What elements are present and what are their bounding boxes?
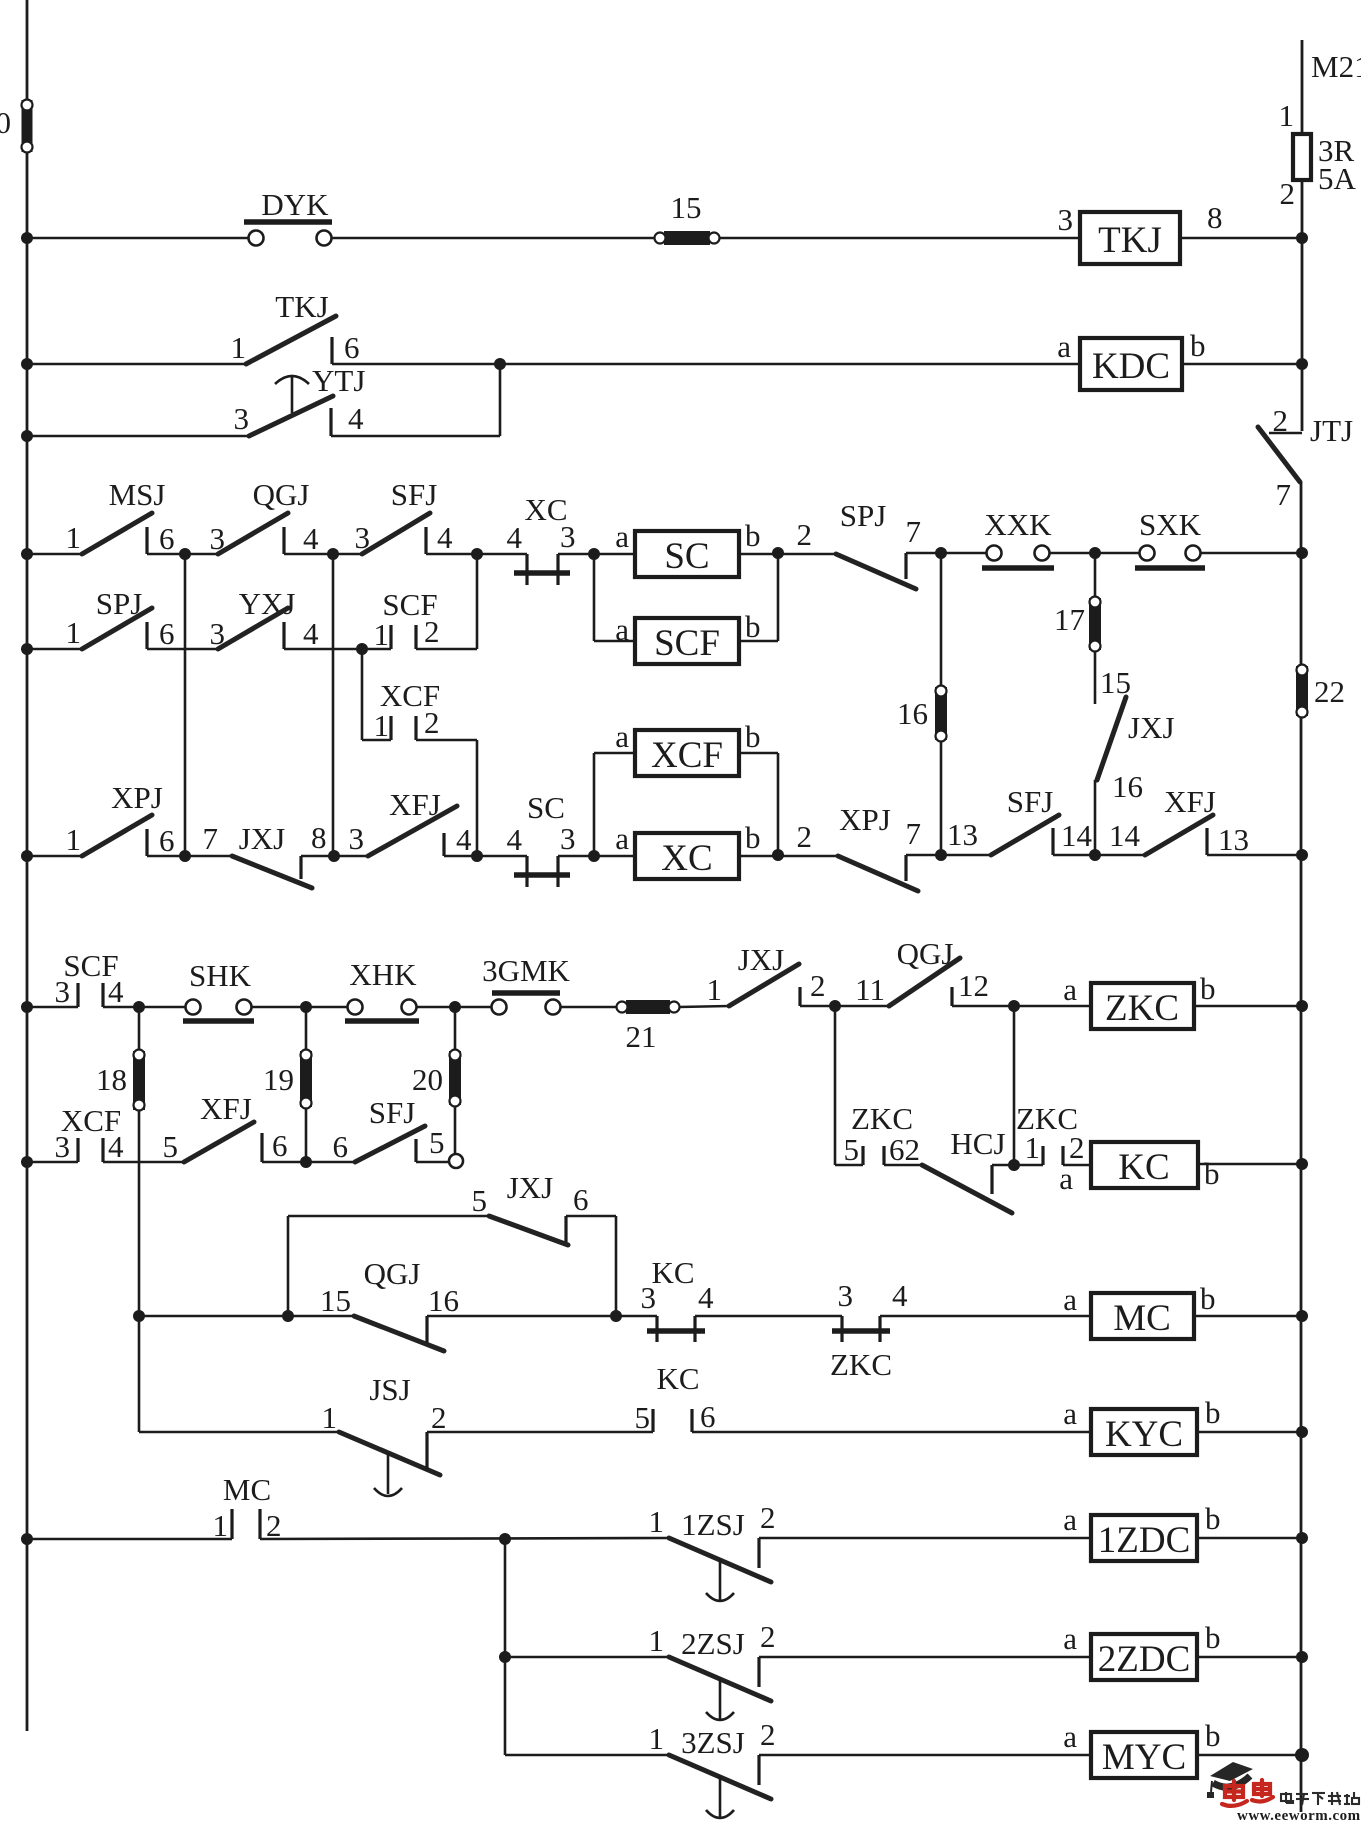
wire row1 mid — [331, 237, 655, 240]
svg-text:6: 6 — [272, 1128, 288, 1163]
svg-text:XXK: XXK — [984, 507, 1052, 542]
svg-text:SFJ: SFJ — [369, 1095, 416, 1130]
svg-text:JSJ: JSJ — [369, 1372, 410, 1407]
wire — [284, 648, 391, 651]
wire — [800, 1005, 889, 1008]
svg-text:b: b — [1200, 1281, 1216, 1316]
node row18 — [499, 1651, 511, 1663]
wire — [1063, 1164, 1091, 1167]
junction left bus row8 — [21, 1156, 33, 1168]
svg-text:XFJ: XFJ — [1164, 784, 1216, 819]
svg-text:4: 4 — [507, 520, 523, 555]
junction left bus row2 — [21, 358, 33, 370]
svg-text:2: 2 — [1280, 176, 1296, 211]
wire row1 to right bus — [1180, 237, 1302, 240]
fuse 0 on left bus — [22, 100, 33, 152]
svg-text:15: 15 — [320, 1283, 351, 1318]
switch SXK — [1140, 546, 1155, 561]
wire row17 to right bus — [1197, 1537, 1302, 1540]
svg-text:JXJ: JXJ — [507, 1170, 554, 1205]
branch wire node H down — [361, 649, 364, 740]
wire — [992, 1164, 1043, 1167]
wire — [692, 1431, 1091, 1434]
svg-text:6: 6 — [333, 1129, 349, 1164]
svg-text:a: a — [1063, 1282, 1077, 1317]
contactor coil SCF pins a-b — [593, 554, 596, 641]
junction right bus KDC row — [1296, 358, 1308, 370]
svg-text:7: 7 — [203, 821, 219, 856]
node P row12 (res18 top) — [133, 1001, 145, 1013]
wire row15 to right bus — [1194, 1315, 1302, 1318]
wire row5 to right bus — [1200, 552, 1302, 555]
svg-text:2: 2 — [760, 1500, 776, 1535]
wire row3 return to row2 — [331, 435, 500, 438]
wire row1 left — [27, 237, 250, 240]
wire — [444, 855, 527, 858]
wire — [739, 855, 838, 858]
wire — [1049, 552, 1140, 555]
node S row12 (ZKC5-62 tap) — [829, 1000, 841, 1012]
svg-text:YTJ: YTJ — [312, 363, 365, 398]
wire row6 left — [27, 648, 85, 651]
wire — [759, 1537, 1091, 1540]
svg-text:3GMK: 3GMK — [482, 953, 570, 988]
wire — [426, 553, 527, 556]
junction right bus TKJ row — [1296, 232, 1308, 244]
wire row5 left — [27, 553, 85, 556]
svg-text:a: a — [1057, 329, 1071, 364]
svg-text:1: 1 — [1025, 1130, 1041, 1165]
svg-text:3: 3 — [234, 401, 250, 436]
node F row5 (res16 tap) — [935, 547, 947, 559]
wire — [427, 1315, 657, 1318]
svg-text:XFJ: XFJ — [200, 1091, 252, 1126]
svg-text:2: 2 — [431, 1400, 447, 1435]
svg-text:SXK: SXK — [1139, 507, 1202, 542]
svg-text:JXJ: JXJ — [738, 942, 785, 977]
svg-text:4: 4 — [456, 822, 472, 857]
svg-text:1: 1 — [649, 1623, 665, 1658]
junction right bus MYC row — [1295, 1748, 1309, 1762]
svg-text:14: 14 — [1061, 818, 1093, 853]
wire row2 left — [27, 363, 246, 366]
svg-text:a: a — [1063, 1621, 1077, 1656]
svg-text:6: 6 — [700, 1399, 716, 1434]
svg-text:5: 5 — [844, 1132, 860, 1167]
svg-text:1: 1 — [374, 617, 390, 652]
svg-text:a: a — [1063, 1502, 1077, 1537]
wire vertical x835 down to KC row — [834, 1006, 837, 1165]
wire vertical x1095 upper — [1094, 553, 1097, 704]
wire row16 to right bus — [1197, 1431, 1302, 1434]
svg-text:SPJ: SPJ — [840, 498, 887, 533]
node R row12 (res20 top) — [449, 1001, 461, 1013]
wire row14 left — [27, 1161, 78, 1164]
fuse 20 — [449, 1051, 461, 1105]
svg-text:SHK: SHK — [189, 958, 252, 993]
svg-text:SC: SC — [664, 536, 709, 577]
wire vertical x185 — [184, 554, 187, 856]
svg-text:0: 0 — [0, 105, 11, 140]
svg-text:6: 6 — [344, 330, 360, 365]
switch XXK — [987, 546, 1002, 561]
svg-text:18: 18 — [96, 1062, 127, 1097]
svg-text:5: 5 — [429, 1125, 445, 1160]
svg-text:1: 1 — [322, 1400, 338, 1435]
node L row9 (XC/XCF a-join) — [588, 850, 600, 862]
svg-text:5: 5 — [472, 1183, 488, 1218]
junction right bus XC row — [1296, 849, 1308, 861]
svg-text:SC: SC — [527, 790, 565, 825]
svg-text:KYC: KYC — [1105, 1414, 1183, 1455]
wire — [560, 1006, 618, 1009]
svg-text:20: 20 — [412, 1062, 443, 1097]
junction right bus 1ZDC row — [1296, 1532, 1308, 1544]
svg-text:ZKC: ZKC — [851, 1101, 913, 1136]
svg-text:2ZSJ: 2ZSJ — [681, 1626, 745, 1661]
wire — [262, 1161, 355, 1164]
wire row9 left — [27, 855, 85, 858]
svg-text:XPJ: XPJ — [111, 780, 163, 815]
wire — [679, 1006, 729, 1007]
svg-text:b: b — [1190, 328, 1206, 363]
node G row5 (res17 tap) — [1089, 547, 1101, 559]
wire XCF branch down to row9 — [416, 739, 477, 742]
wire row18 to right bus — [1197, 1656, 1302, 1659]
svg-text:4: 4 — [507, 822, 523, 857]
svg-text:TKJ: TKJ — [275, 289, 328, 324]
svg-text:b: b — [1205, 1395, 1221, 1430]
svg-text:4: 4 — [303, 521, 319, 556]
svg-text:1: 1 — [66, 615, 82, 650]
svg-text:2: 2 — [760, 1717, 776, 1752]
svg-text:TKJ: TKJ — [1098, 220, 1162, 261]
svg-text:7: 7 — [1276, 477, 1292, 512]
svg-text:62: 62 — [889, 1132, 920, 1167]
wire row2 right — [332, 363, 1080, 366]
svg-text:16: 16 — [428, 1283, 459, 1318]
JSJ delay arrow — [387, 1453, 390, 1494]
switch XHK — [348, 1000, 363, 1015]
svg-text:MSJ: MSJ — [109, 477, 166, 512]
svg-text:2: 2 — [760, 1619, 776, 1654]
wire — [759, 1754, 1091, 1757]
node V row14 (res19 bottom) — [300, 1156, 312, 1168]
svg-text:4: 4 — [108, 1129, 124, 1164]
left supply bus — [26, 0, 29, 1731]
svg-text:6: 6 — [159, 616, 175, 651]
svg-text:KDC: KDC — [1092, 346, 1170, 387]
node K row9 (XCF branch) — [471, 850, 483, 862]
svg-text:a: a — [1063, 1396, 1077, 1431]
node B row5 — [327, 548, 339, 560]
fuse 19 — [300, 1051, 312, 1107]
wire — [558, 553, 635, 556]
svg-text:KC: KC — [656, 1361, 699, 1396]
wire vertical x1095 lower — [1094, 780, 1097, 855]
right bus upper segment — [1301, 180, 1304, 431]
svg-text:3: 3 — [560, 821, 576, 856]
svg-text:2: 2 — [1273, 403, 1289, 438]
svg-text:b: b — [1205, 1620, 1221, 1655]
svg-text:SFJ: SFJ — [1007, 784, 1054, 819]
svg-text:1: 1 — [707, 972, 723, 1007]
junction left bus row9 — [21, 1533, 33, 1545]
wire — [260, 1538, 669, 1539]
svg-text:6: 6 — [159, 823, 175, 858]
svg-text:DYK: DYK — [261, 187, 329, 222]
svg-text:YXJ: YXJ — [239, 586, 296, 621]
svg-text:2: 2 — [810, 968, 826, 1003]
svg-text:JXJ: JXJ — [239, 821, 286, 856]
svg-text:QGJ: QGJ — [253, 477, 310, 512]
svg-text:a: a — [1059, 1161, 1073, 1196]
svg-text:2: 2 — [424, 705, 440, 740]
wire row17 left — [27, 1538, 232, 1541]
contactor coil XCF pins a-b — [593, 753, 596, 856]
svg-text:ZKC: ZKC — [1105, 988, 1179, 1029]
wire — [906, 854, 991, 857]
wire — [301, 855, 368, 858]
wire — [695, 1315, 842, 1318]
wire KC row to right bus — [1198, 1163, 1302, 1166]
wire row19 to right bus — [1197, 1754, 1302, 1757]
svg-text:4: 4 — [348, 401, 364, 436]
node M row9 (XC/XCF b-join) — [772, 849, 784, 861]
svg-text:15: 15 — [671, 190, 702, 225]
svg-text:2: 2 — [797, 819, 813, 854]
wire — [284, 553, 362, 556]
svg-text:b: b — [745, 609, 761, 644]
svg-text:MYC: MYC — [1102, 1737, 1186, 1778]
svg-text:a: a — [1063, 972, 1077, 1007]
svg-text:M21: M21 — [1311, 49, 1361, 84]
watermark site name glyphs — [1281, 1792, 1359, 1805]
wire — [427, 1431, 653, 1434]
junction right bus MC row — [1296, 1310, 1308, 1322]
node W row15 left — [133, 1310, 145, 1322]
svg-text:a: a — [615, 719, 629, 754]
node Q row12 (res19 top) — [300, 1001, 312, 1013]
wire — [103, 1006, 193, 1009]
svg-text:MC: MC — [223, 1472, 271, 1507]
svg-text:1: 1 — [649, 1721, 665, 1756]
svg-text:14: 14 — [1109, 818, 1141, 853]
wire vertical x505 row17-row19 — [504, 1539, 507, 1755]
junction left bus row5 — [21, 643, 33, 655]
svg-text:1: 1 — [66, 520, 82, 555]
svg-text:13: 13 — [1218, 822, 1249, 857]
node U KC row — [1008, 1159, 1020, 1171]
wire row12 to right bus — [1194, 1005, 1302, 1008]
svg-text:KC: KC — [651, 1255, 694, 1290]
wire vertical x139 row12-row16 — [138, 1007, 141, 1432]
svg-text:1ZDC: 1ZDC — [1098, 1520, 1191, 1561]
terminal circle row14 end — [449, 1154, 463, 1168]
node Y row15 (JXJ5-6 branch right) — [610, 1310, 622, 1322]
1ZSJ delay arrow — [719, 1559, 722, 1600]
wire — [952, 1005, 1091, 1008]
wire vertical x941 row5-row9 — [940, 553, 943, 855]
svg-text:www.eeworm.com: www.eeworm.com — [1237, 1808, 1361, 1821]
watermark red bug characters — [1222, 1780, 1273, 1806]
fuse 22 on right bus — [1296, 666, 1308, 716]
svg-text:5A: 5A — [1318, 161, 1357, 196]
svg-text:6: 6 — [573, 1182, 589, 1217]
svg-text:19: 19 — [263, 1062, 294, 1097]
svg-text:ZKC: ZKC — [830, 1347, 892, 1382]
svg-text:21: 21 — [626, 1019, 657, 1054]
svg-text:a: a — [615, 519, 629, 554]
svg-text:3: 3 — [1058, 202, 1074, 237]
wire row19 left — [505, 1754, 669, 1757]
svg-text:1: 1 — [649, 1504, 665, 1539]
svg-text:1ZSJ: 1ZSJ — [681, 1507, 745, 1542]
node T row12 (KC branch tap) — [1008, 1000, 1020, 1012]
fuse 17 — [1089, 598, 1101, 650]
node D row5 (SC/SCF a-join) — [588, 548, 600, 560]
wire — [759, 1656, 1091, 1659]
svg-text:4: 4 — [437, 520, 453, 555]
svg-text:6: 6 — [159, 521, 175, 556]
2ZSJ delay arrow — [719, 1678, 722, 1719]
wire row9 to right bus — [1207, 854, 1302, 857]
svg-text:b: b — [1205, 1501, 1221, 1536]
svg-text:b: b — [745, 820, 761, 855]
svg-text:5: 5 — [635, 1400, 651, 1435]
contact JTJ 2-7 on right bus — [1269, 432, 1302, 435]
node row2/row3 — [494, 358, 506, 370]
fuse 18 — [133, 1051, 145, 1110]
wire row2 to right bus — [1182, 363, 1302, 366]
wire row6 up to row5 — [416, 648, 477, 651]
node A row5 — [179, 548, 191, 560]
wire row3 left — [27, 435, 249, 438]
svg-text:8: 8 — [1207, 200, 1223, 235]
junction right bus KYC row — [1296, 1426, 1308, 1438]
junction left bus row4 — [21, 548, 33, 560]
wire row12 left — [27, 1006, 78, 1009]
junction right bus KC row — [1296, 1158, 1308, 1170]
junction left bus row7 — [21, 1001, 33, 1013]
right bus lower segment — [1300, 482, 1303, 1812]
svg-text:MC: MC — [1113, 1298, 1171, 1339]
svg-text:4: 4 — [698, 1280, 714, 1315]
node N row9 (res16 bottom) — [935, 849, 947, 861]
svg-text:SFJ: SFJ — [391, 477, 438, 512]
svg-text:7: 7 — [906, 514, 922, 549]
svg-text:XCF: XCF — [651, 735, 723, 776]
svg-text:b: b — [745, 518, 761, 553]
wire — [147, 648, 218, 651]
wire vertical x306 row12-row14 — [305, 1007, 308, 1162]
svg-text:2: 2 — [1069, 1130, 1085, 1165]
svg-text:JTJ: JTJ — [1310, 413, 1353, 448]
wire — [147, 855, 232, 858]
svg-text:17: 17 — [1054, 602, 1085, 637]
svg-text:3: 3 — [349, 821, 365, 856]
node E row5 (SC/SCF b-join) — [772, 547, 784, 559]
node Z row17 (ZSJ branch) — [499, 1533, 511, 1545]
fuse 15 — [664, 231, 710, 245]
fuse 21 — [626, 1000, 670, 1014]
svg-text:XHK: XHK — [349, 957, 417, 992]
svg-text:8: 8 — [311, 820, 327, 855]
svg-text:HCJ: HCJ — [950, 1126, 1005, 1161]
svg-text:1: 1 — [66, 822, 82, 857]
svg-text:5: 5 — [163, 1129, 179, 1164]
svg-text:2ZDC: 2ZDC — [1098, 1639, 1191, 1680]
YTJ delay symbol — [275, 376, 309, 384]
svg-text:SCF: SCF — [654, 623, 720, 664]
switch DYK — [249, 231, 264, 246]
svg-text:1: 1 — [374, 708, 390, 743]
svg-text:b: b — [1200, 971, 1216, 1006]
junction left bus row6 — [21, 850, 33, 862]
svg-text:2: 2 — [424, 614, 440, 649]
svg-text:3: 3 — [838, 1278, 854, 1313]
wire — [880, 1315, 1091, 1318]
svg-text:16: 16 — [1112, 769, 1143, 804]
svg-text:b: b — [745, 719, 761, 754]
node J row9 — [328, 850, 340, 862]
svg-text:22: 22 — [1314, 674, 1345, 709]
wire — [1053, 854, 1145, 857]
svg-text:a: a — [615, 612, 629, 647]
wire — [103, 1161, 184, 1164]
fuse 16 — [935, 687, 947, 740]
pushbutton 3GMK — [492, 1000, 507, 1015]
node C row5 (SCF branch tap) — [471, 548, 483, 560]
svg-text:1: 1 — [231, 330, 247, 365]
svg-text:2: 2 — [797, 517, 813, 552]
svg-text:1: 1 — [213, 1508, 229, 1543]
svg-text:JXJ: JXJ — [1128, 710, 1175, 745]
svg-text:a: a — [615, 821, 629, 856]
wire — [416, 1161, 449, 1164]
svg-text:b: b — [1204, 1156, 1220, 1191]
svg-text:XPJ: XPJ — [839, 802, 891, 837]
node H row6 (XCF branch tap) — [356, 643, 368, 655]
svg-text:KC: KC — [1118, 1147, 1169, 1188]
wire — [906, 552, 994, 555]
svg-text:16: 16 — [897, 696, 928, 731]
svg-text:11: 11 — [855, 972, 885, 1007]
svg-text:13: 13 — [947, 817, 978, 852]
wire — [147, 553, 218, 556]
svg-text:12: 12 — [958, 968, 989, 1003]
wire row18 left — [505, 1656, 669, 1659]
wire row15 left — [139, 1315, 354, 1318]
junction right bus ZKC row — [1296, 1000, 1308, 1012]
svg-text:4: 4 — [303, 616, 319, 651]
junction left bus row1 — [21, 232, 33, 244]
wire — [739, 553, 838, 556]
wire — [884, 1164, 922, 1167]
junction left bus row3 — [21, 430, 33, 442]
junction right bus 2ZDC row — [1296, 1651, 1308, 1663]
wire vertical x1014 down to KC row — [1013, 1006, 1016, 1165]
wire vertical x455 row12-row14 — [454, 1007, 457, 1154]
svg-text:4: 4 — [108, 974, 124, 1009]
junction right bus SC row — [1296, 547, 1308, 559]
node O row9 (JXJ branch bottom) — [1089, 849, 1101, 861]
svg-text:XC: XC — [661, 838, 712, 879]
wire vertical x333 — [332, 554, 335, 856]
switch SHK — [186, 1000, 201, 1015]
wire — [416, 1006, 499, 1009]
svg-text:7: 7 — [906, 816, 922, 851]
